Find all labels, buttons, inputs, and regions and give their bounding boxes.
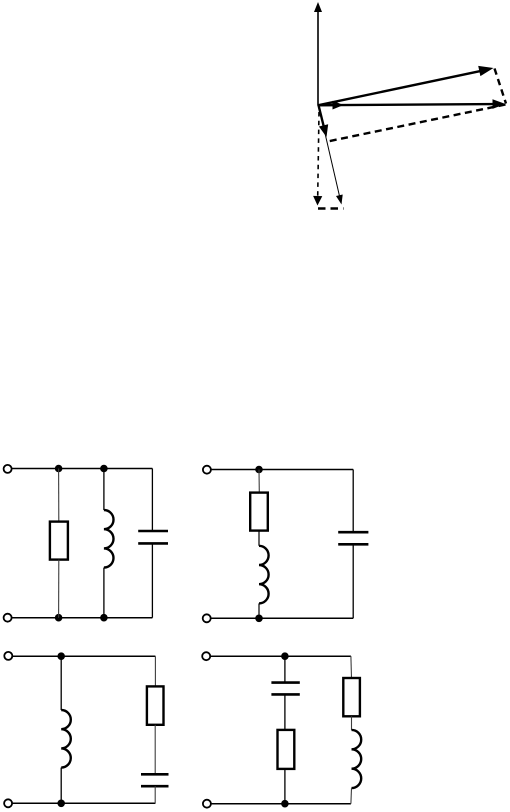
wire CR branch top circuit4 — [284, 656, 286, 682]
junction dot bottom L circuit1 — [100, 614, 108, 622]
junction dot top circuit3 — [57, 652, 65, 660]
wire C branch bottom circuit3 — [154, 786, 156, 803]
wire L branch top circuit1 — [103, 469, 105, 511]
wire bottom rail circuit2 — [211, 617, 353, 619]
wire top rail circuit4 — [210, 655, 351, 657]
wire R branch bottom circuit4 — [284, 769, 286, 804]
inductor L circuit4 — [352, 730, 362, 788]
wire RC branch top circuit3 — [154, 656, 156, 686]
wire bottom rail circuit4 — [211, 803, 351, 805]
dashed vertical construction line with arrow — [313, 112, 322, 206]
wire R to C circuit3 — [154, 725, 156, 775]
resistor R circuit1 — [50, 522, 68, 560]
junction dot bottom circuit2 — [255, 615, 263, 623]
wire top rail circuit1 — [12, 468, 153, 470]
inductor L circuit2 — [259, 546, 269, 604]
terminal top-left circuit1 — [4, 465, 12, 473]
inductor L circuit1 — [104, 510, 114, 568]
dashed construction line right (tip U to tip I) — [495, 69, 507, 104]
capacitor C circuit1 — [138, 531, 168, 543]
wire R to L circuit4 — [351, 716, 353, 730]
capacitor C circuit3 — [141, 774, 169, 786]
wire bottom rail circuit3 — [12, 802, 155, 804]
vector IR (short horizontal phasor) — [319, 101, 344, 110]
inductor L circuit3 — [61, 710, 71, 768]
wire R branch top circuit1 — [58, 469, 60, 522]
wire L branch bottom circuit1 — [103, 568, 105, 618]
wire top rail circuit3 — [12, 655, 155, 657]
wire C branch bottom circuit1 — [151, 543, 153, 617]
wire L branch top circuit3 — [60, 656, 62, 710]
terminal top-left circuit2 — [203, 466, 211, 474]
terminal bottom-left circuit1 — [4, 614, 12, 622]
wire RL branch top circuit2 — [258, 470, 260, 493]
phasor diagram vertical axis — [314, 2, 322, 106]
wire R branch bottom circuit1 — [58, 560, 60, 618]
terminal bottom-left circuit4 — [203, 800, 211, 808]
wire L branch bottom circuit2 — [258, 603, 260, 618]
junction dot bottom R circuit1 — [55, 614, 63, 622]
junction dot top L circuit1 — [100, 465, 108, 473]
wire L branch bottom circuit3 — [60, 768, 62, 804]
wire RL branch top circuit4 — [350, 656, 353, 678]
wire top rail circuit2 — [211, 469, 353, 471]
terminal top-left circuit3 — [4, 652, 12, 660]
wire C branch bottom circuit2 — [352, 544, 354, 618]
capacitor C circuit2 — [338, 532, 368, 544]
junction dot top circuit2 — [255, 466, 263, 474]
vector IL (short downward phasor) — [319, 105, 329, 137]
junction dot bottom circuit4 — [281, 800, 289, 808]
wire C to R circuit4 — [284, 694, 286, 730]
junction dot bottom circuit3 — [57, 800, 65, 808]
wire C branch top circuit1 — [151, 469, 153, 532]
wire R to L circuit2 — [258, 531, 260, 546]
terminal top-left circuit4 — [202, 652, 210, 660]
wire L branch bottom circuit4 — [350, 788, 353, 804]
resistor R circuit2 — [250, 493, 268, 531]
wire C branch top circuit2 — [352, 470, 354, 533]
resistor R circuit3 — [147, 686, 164, 724]
vector U (long diagonal phasor) — [319, 66, 494, 105]
terminal bottom-left circuit2 — [203, 614, 211, 622]
vector I (long horizontal phasor) — [319, 99, 506, 109]
resistor R middle circuit4 — [278, 730, 295, 769]
wire bottom rail circuit1 — [12, 617, 153, 619]
junction dot top circuit4 — [281, 652, 289, 660]
junction dot top R circuit1 — [55, 465, 63, 473]
dashed horizontal construction line bottom — [318, 207, 344, 210]
capacitor C circuit4 — [271, 683, 299, 695]
dashed construction diagonal (tip I to tip IL) — [328, 105, 506, 142]
resistor R right circuit4 — [343, 678, 360, 716]
terminal bottom-left circuit3 — [4, 799, 12, 807]
vector IC (thin long downward phasor) — [319, 105, 343, 204]
